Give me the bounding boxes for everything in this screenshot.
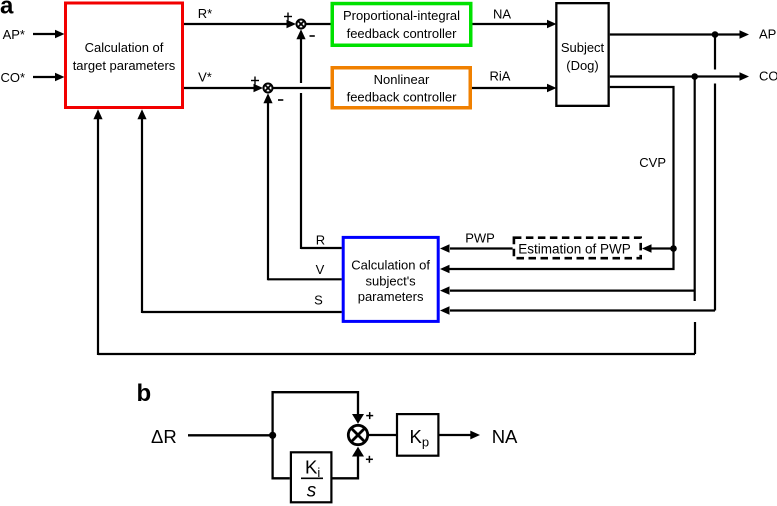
svg-text:CO: CO: [759, 69, 777, 84]
node dot on AP output: [712, 31, 719, 38]
wire: top branch to summing junction Jb: [273, 392, 364, 435]
svg-text:(Dog): (Dog): [566, 58, 599, 73]
box: Ki/s integrator: [291, 452, 332, 502]
wire: PWP from Estimation box into blue box: [440, 244, 513, 252]
sign + at J2: [251, 77, 259, 85]
svg-text:Nonlinear: Nonlinear: [374, 72, 430, 87]
svg-text:PWP: PWP: [465, 230, 495, 245]
svg-text:V*: V*: [198, 70, 212, 85]
summing junction Jb: [348, 425, 367, 444]
svg-text:ΔR: ΔR: [151, 426, 177, 447]
svg-text:Proportional-integral: Proportional-integral: [343, 8, 460, 23]
wire: S from blue box to red box bottom input: [137, 109, 341, 313]
sign - at J2: [278, 99, 283, 101]
svg-text:CVP: CVP: [639, 155, 666, 170]
wire: AP feedback into blue box (row 4, with crossover break at CO line): [440, 35, 715, 315]
wire: J2 to orange box: [273, 87, 331, 89]
svg-text:feedback controller: feedback controller: [347, 26, 458, 41]
box: Nonlinear feedback controller (orange): [332, 68, 470, 108]
sign + at J1: [284, 13, 292, 21]
svg-text:AP: AP: [759, 27, 776, 42]
wire: V* from red box to junction J2: [184, 84, 263, 92]
svg-text:NA: NA: [493, 7, 511, 22]
node dot branch point: [269, 432, 276, 439]
sign + at Jb top: [366, 412, 373, 419]
svg-text:subject's: subject's: [366, 274, 417, 289]
wire: CO feedback to red box bottom (with crossover break at row 4): [93, 109, 695, 355]
svg-text:V: V: [316, 262, 325, 277]
box: Estimation of PWP (dashed): [514, 238, 641, 259]
wire: AP output from Subject: [610, 30, 749, 38]
wire: branch from CVP dot into Estimation of PWP: [642, 244, 674, 252]
svg-text:target parameters: target parameters: [73, 58, 176, 73]
svg-text:Calculation of: Calculation of: [351, 258, 430, 273]
wire: Ki/s output up into Jb: [333, 447, 365, 479]
summing junction J1: [297, 20, 306, 29]
summing junction J2: [264, 84, 273, 93]
node dot on CVP line: [670, 245, 677, 252]
box: Calculation of target parameters (red): [66, 3, 183, 108]
wire: Kp output to NA: [440, 431, 481, 440]
wire: V from blue box to J2: [263, 93, 341, 280]
svg-text:Estimation of PWP: Estimation of PWP: [518, 241, 631, 256]
box: Proportional-integral feedback controller (green): [332, 4, 471, 46]
wire: Jb to Kp box: [368, 434, 396, 436]
svg-text:AP*: AP*: [3, 27, 25, 42]
wire: AP* input arrow: [33, 30, 65, 38]
node dot on CO output: [691, 73, 698, 80]
wire: CO output from Subject: [610, 72, 749, 80]
svg-text:S: S: [314, 293, 323, 308]
wire: CO* input arrow: [33, 73, 65, 81]
svg-text:Subject: Subject: [561, 40, 605, 55]
svg-text:a: a: [0, 0, 14, 20]
wire: bottom branch through Ki/s: [273, 435, 290, 478]
wire: RiA from orange box to Subject: [472, 84, 557, 92]
wire: ΔR input to branch dot: [188, 434, 273, 436]
svg-text:parameters: parameters: [358, 289, 424, 304]
box: Calculation of subject's parameters (blue): [343, 237, 438, 321]
svg-text:Calculation of: Calculation of: [85, 40, 164, 55]
svg-text:feedback controller: feedback controller: [347, 90, 458, 105]
svg-text:b: b: [137, 380, 152, 407]
box: Subject (Dog): [556, 3, 608, 106]
wire: CVP from Subject down: [450, 87, 674, 269]
wire: NA from green box to Subject: [473, 20, 557, 28]
svg-text:CO*: CO*: [0, 70, 25, 85]
svg-text:RiA: RiA: [490, 69, 511, 84]
wire: J1 to green box: [306, 23, 331, 25]
svg-text:R*: R*: [198, 6, 212, 21]
sign - at J1: [310, 35, 315, 37]
svg-text:s: s: [307, 481, 317, 502]
wire: CO feedback into blue box (row 3): [440, 76, 695, 302]
arrowhead: CVP row into blue box: [440, 265, 450, 273]
svg-text:NA: NA: [492, 426, 518, 447]
wire: R from blue box to J1 (vertical with crossover break): [296, 29, 341, 249]
svg-text:R: R: [316, 233, 325, 248]
box: Kp gain: [397, 414, 438, 456]
sign + at Jb bottom: [366, 456, 373, 463]
wire: R* from red box to junction J1: [184, 20, 296, 28]
